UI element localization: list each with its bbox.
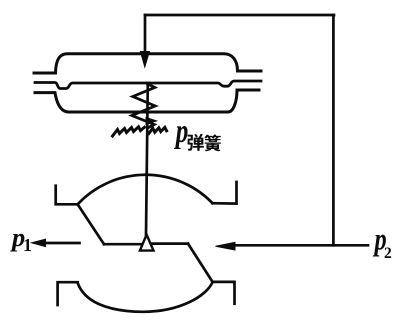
valve lower-left flange [58, 282, 78, 305]
arrow p2 line [232, 244, 368, 247]
label spring hanzi 簧 [204, 134, 221, 151]
arrow p1 line [44, 242, 80, 245]
diaphragm membrane middle line [35, 81, 261, 89]
diaphragm actuator lower shell [35, 90, 259, 112]
svg-text:2: 2 [384, 245, 392, 262]
annotation flag on stem [146, 118, 157, 125]
valve right diagonal wall [188, 244, 213, 282]
valve right seat line [153, 242, 189, 245]
valve upper-left flange [56, 186, 78, 205]
valve upper body arc [78, 175, 213, 205]
valve upper-right flange [213, 182, 237, 204]
annotation squiggle right of stem [149, 127, 167, 133]
svg-text:p: p [173, 112, 188, 150]
svg-text:1: 1 [23, 235, 32, 255]
valve left diagonal wall [78, 204, 104, 244]
valve left seat line [104, 243, 141, 246]
diaphragm actuator upper shell [34, 54, 261, 73]
valve lower-right flange [213, 282, 235, 304]
arrow p1 head [32, 239, 46, 246]
valve stem [146, 83, 148, 235]
valve lower body arc [78, 282, 213, 312]
annotation squiggle left of stem [113, 127, 145, 136]
wire feedback left drop to actuator [144, 15, 147, 53]
label spring hanzi 弹 [188, 134, 204, 151]
spring [132, 84, 155, 128]
wire feedback right vertical [332, 15, 335, 245]
arrow p2 head [216, 242, 236, 250]
valve plug triangle [140, 235, 154, 251]
wire feedback top horizontal [145, 14, 334, 17]
arrowhead into actuator top [140, 52, 149, 68]
